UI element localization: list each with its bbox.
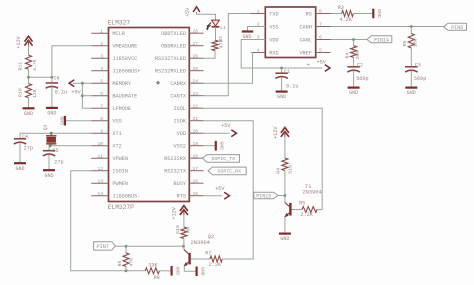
svg-text:5: 5 (319, 48, 322, 54)
ground (VSS, sideways) (64, 116, 66, 126)
svg-text:DSPIC_TX: DSPIC_TX (212, 156, 236, 162)
svg-text:PIN6: PIN6 (451, 25, 463, 31)
op-amp U2 : CAN transceiver body (265, 7, 315, 58)
power +5V (RTS pin15) (204, 195, 223, 197)
wire to BAUDRATE pin6 (82, 95, 91, 97)
node pin5 branch (81, 82, 84, 85)
svg-text:XT2: XT2 (112, 144, 121, 150)
svg-text:2.2K: 2.2K (300, 212, 313, 218)
wire VSS pin8 to ground (66, 120, 92, 122)
svg-text:VSS: VSS (112, 119, 121, 125)
pin 11 VPWEN (91, 157, 108, 159)
svg-text:+5V: +5V (221, 123, 231, 129)
resistor R11 4.7K (26, 55, 32, 69)
svg-text:R7: R7 (205, 251, 211, 257)
resistor R10 12K (26, 84, 32, 98)
pin 18 RS232RX (189, 157, 203, 159)
svg-text:4: 4 (257, 48, 260, 54)
svg-text:ISOK: ISOK (174, 119, 187, 125)
node R4can junction (352, 38, 355, 41)
ground (C6) (46, 107, 58, 109)
svg-text:RXD: RXD (269, 50, 278, 56)
svg-text:R9: R9 (154, 275, 160, 281)
capacitor C5 27p (48, 146, 50, 151)
svg-text:+5V: +5V (215, 186, 225, 192)
svg-text:Q1: Q1 (42, 124, 48, 130)
svg-text:CANH: CANH (299, 24, 311, 30)
svg-text:ISOL: ISOL (174, 106, 186, 112)
svg-text:GND: GND (376, 9, 382, 18)
svg-text:+5V: +5V (185, 8, 191, 17)
pin 1 MCLR (91, 32, 108, 34)
svg-text:19: 19 (193, 141, 199, 147)
svg-text:GND: GND (277, 94, 286, 100)
node PIN6 tag (444, 23, 467, 30)
svg-text:33K: 33K (148, 263, 158, 269)
resistor R9 33K (145, 268, 159, 274)
node pin6 branch (81, 94, 84, 97)
resistor R5can 100 (CANH) (410, 27, 412, 34)
power +5V (left arrow, pins 5-7) (69, 80, 74, 87)
wire VDD pin3 to +5V rail (241, 40, 322, 69)
capacitor C4 27p (19, 133, 21, 139)
pin 20 VDD (189, 132, 203, 134)
wire ISOL pin22 to R5 (204, 108, 323, 209)
svg-text:C6: C6 (54, 76, 60, 82)
ground (C3) (405, 86, 417, 88)
svg-text:GND: GND (15, 166, 24, 172)
resistor R4can 100 (CANL) (353, 40, 355, 46)
wire R7 to ISOK pin21 (204, 121, 254, 259)
ground (C1) (276, 90, 288, 92)
LED L1 (212, 20, 220, 26)
svg-text:16: 16 (193, 178, 199, 184)
wire T1 emitter to ground (284, 217, 286, 233)
wire CANTX pin23 to TXD (204, 14, 251, 96)
node PIN15 junction (284, 194, 287, 197)
ground (C2) (348, 86, 360, 88)
svg-text:28: 28 (193, 28, 199, 34)
svg-text:26: 26 (193, 53, 199, 59)
svg-text:7: 7 (100, 103, 103, 109)
node PIN7 tag (94, 242, 116, 250)
svg-text:+12V: +12V (273, 126, 279, 139)
pin 27 OBDRXLED (189, 45, 203, 47)
svg-text:R5: R5 (402, 40, 408, 46)
pin 8 VSS (91, 120, 108, 122)
node DSPIC_RX tag (208, 167, 246, 175)
svg-text:510: 510 (287, 165, 293, 174)
svg-text:22: 22 (193, 103, 199, 109)
pin 8 RS (316, 13, 331, 15)
svg-text:+12V: +12V (16, 35, 22, 48)
ground (R3, sideways) (372, 9, 374, 19)
svg-text:RS: RS (306, 11, 312, 17)
svg-text:LFMODE: LFMODE (112, 106, 131, 112)
wire VMEASURE pin2 (52, 46, 91, 83)
node PIN15 tag (254, 192, 278, 199)
svg-text:DSPIC_RX: DSPIC_RX (218, 169, 242, 175)
pin 4 RXD (251, 52, 266, 54)
svg-text:OBDTXLED: OBDTXLED (161, 31, 186, 37)
svg-text:R8: R8 (117, 261, 123, 267)
svg-text:6: 6 (319, 35, 322, 41)
pin 13 PWMEN (91, 182, 108, 184)
resistor R6 510 (181, 227, 187, 239)
wire XT1 pin9 (20, 132, 91, 134)
svg-text:VSS2: VSS2 (174, 144, 186, 150)
wire R6 to collector (183, 239, 185, 250)
wire VSS pin2 to ground (248, 27, 266, 31)
ground (T1 emitter) (279, 233, 291, 235)
svg-text:20: 20 (193, 128, 199, 134)
wire +12V to R4 (284, 137, 286, 158)
wire R5can to C3 (410, 48, 412, 67)
svg-text:+12V: +12V (171, 206, 177, 219)
svg-text:R3: R3 (338, 5, 344, 11)
svg-text:0.1u: 0.1u (55, 90, 67, 96)
svg-text:GND: GND (44, 173, 53, 179)
pin 7 LFMODE (91, 107, 108, 109)
wire Q2 base to R7 (191, 258, 210, 260)
svg-text:GND: GND (59, 116, 65, 125)
svg-text:RTS: RTS (177, 194, 186, 200)
svg-text:GND: GND (349, 90, 358, 96)
svg-text:CANL: CANL (299, 37, 311, 43)
wire R11 to R10 (28, 69, 30, 83)
wire CANL pin6 to PIN14 (331, 39, 367, 41)
pin 7 CANH (316, 26, 331, 28)
svg-text:+5V: +5V (71, 90, 81, 96)
wire RS pin8 to R3 (331, 13, 342, 15)
wire CANH pin7 to PIN6 (331, 26, 444, 28)
svg-text:PWMEN: PWMEN (112, 181, 128, 187)
svg-text:2N3904: 2N3904 (302, 190, 321, 196)
svg-text:1: 1 (257, 9, 260, 15)
power +12V (K-line) (180, 206, 188, 211)
pin 3 J1850VCC (91, 57, 108, 59)
svg-text:CANRX: CANRX (170, 81, 186, 87)
svg-text:GND: GND (219, 141, 225, 150)
wire to LFMODE pin7 (82, 107, 91, 109)
svg-text:6: 6 (100, 91, 103, 97)
svg-text:560p: 560p (356, 76, 368, 82)
svg-text:CANTX: CANTX (170, 94, 186, 100)
svg-text:TXD: TXD (269, 11, 278, 17)
capacitor C6 0.1u (46, 82, 59, 84)
svg-text:13: 13 (97, 178, 103, 184)
wire +12V to R6 (183, 215, 185, 227)
pin 4 J1850BUS+ (91, 70, 108, 72)
resistor R7 2.2K (210, 256, 222, 262)
pin 15 RTS (189, 195, 203, 197)
svg-text:ISOIN: ISOIN (112, 169, 128, 175)
pin 22 ISOL (189, 107, 203, 109)
wire R4can to C2 (353, 58, 355, 67)
svg-text:MEMORY: MEMORY (112, 81, 132, 87)
node crystal bottom / C5 (49, 144, 52, 147)
svg-text:Q2: Q2 (208, 234, 214, 240)
node DSPIC_TX tag (203, 155, 240, 163)
svg-text:21: 21 (193, 116, 199, 122)
svg-text:PIN14: PIN14 (374, 38, 389, 44)
resistor R2 470 (212, 40, 218, 51)
svg-text:4.2K: 4.2K (339, 17, 352, 23)
svg-text:VMEASURE: VMEASURE (112, 44, 137, 50)
svg-text:18: 18 (193, 153, 199, 159)
wire LED to R2 (215, 27, 217, 40)
svg-text:5: 5 (100, 78, 103, 84)
svg-text:25: 25 (193, 66, 199, 72)
pin 5 VREF (316, 52, 331, 54)
svg-text:24: 24 (193, 78, 199, 84)
svg-text:10: 10 (97, 141, 103, 147)
power +12V (divider) (25, 36, 33, 41)
op-amp U1 : ELM327P main IC body (109, 28, 190, 202)
pin 19 VSS2 (189, 145, 203, 147)
svg-text:VPWEN: VPWEN (112, 156, 128, 162)
svg-text:14: 14 (97, 191, 103, 197)
pin 26 RS232TXLED (189, 57, 203, 59)
ground (C5) (43, 169, 55, 171)
svg-text:470: 470 (218, 40, 224, 49)
pin 2 VMEASURE (91, 45, 108, 47)
pin 3 VDD (251, 39, 266, 41)
pin 21 ISOK (189, 120, 203, 122)
svg-text:GND: GND (199, 267, 205, 276)
power +12V (L-line) (281, 128, 289, 133)
svg-text:OBDRXLED: OBDRXLED (161, 44, 186, 50)
svg-text:23: 23 (193, 91, 199, 97)
pin 25 RS232RXLED (189, 70, 203, 72)
capacitor C3 560p (405, 66, 418, 68)
pin 6 BAUDRATE (91, 95, 108, 97)
wire R3 to ground (353, 13, 373, 15)
svg-text:VDD: VDD (269, 37, 278, 43)
node C6 top junction (51, 76, 54, 79)
svg-text:PIN7: PIN7 (96, 244, 108, 250)
resistor R8 47K (125, 246, 127, 253)
wire emitter to ground (184, 266, 196, 271)
svg-text:VSS: VSS (269, 24, 278, 30)
pin 24 CANRX (189, 82, 203, 84)
node R5can junction (410, 25, 413, 28)
pin 6 CANL (316, 39, 331, 41)
svg-text:4.7K: 4.7K (32, 59, 38, 71)
svg-text:RS232RXLED: RS232RXLED (155, 69, 186, 75)
svg-text:J1850BUS-: J1850BUS- (112, 194, 140, 200)
node R8 bottom (125, 269, 128, 272)
svg-text:2.2K: 2.2K (209, 262, 222, 268)
ground (Q2 emitter, sideways) (196, 267, 198, 277)
svg-text:VREF: VREF (299, 50, 311, 56)
svg-text:27: 27 (193, 41, 199, 47)
pin 12 ISOIN (91, 170, 108, 172)
svg-text:GND: GND (407, 90, 416, 96)
svg-text:RS232TX: RS232TX (164, 169, 187, 175)
node crystal top (50, 132, 53, 135)
resistor R4 510 (282, 158, 288, 171)
wire branch down to pins 6,7 (81, 83, 83, 108)
power +5V (LED) (193, 7, 200, 12)
svg-text:27p: 27p (54, 160, 63, 166)
svg-text:3: 3 (100, 53, 103, 59)
node R8 top (125, 245, 128, 248)
wire R2 to pin26 (204, 51, 216, 59)
capacitor C2 560p (347, 66, 360, 68)
svg-text:0.1u: 0.1u (286, 84, 298, 90)
wire PIN7 to Q2 collector (115, 245, 183, 247)
svg-text:47K: 47K (129, 258, 135, 267)
resistor R3 4.2K (342, 11, 354, 17)
svg-text:1: 1 (100, 28, 103, 34)
svg-text:8: 8 (319, 9, 322, 15)
svg-text:J1850VCC: J1850VCC (112, 56, 137, 62)
pin 14 J1850BUS- (91, 195, 108, 197)
svg-text:27p: 27p (24, 146, 33, 152)
svg-text:9: 9 (100, 128, 103, 134)
svg-text:VDD: VDD (177, 131, 186, 137)
svg-text:ELM327P: ELM327P (108, 204, 134, 211)
wire +12V to R11 (28, 46, 30, 55)
wire R5 to T1 base (292, 209, 303, 211)
node C1 junction (280, 67, 283, 70)
ground (C4) (14, 162, 26, 164)
svg-text:4: 4 (100, 66, 103, 72)
ground (VSS2 pin19, sideways) (204, 145, 216, 147)
svg-text:15: 15 (193, 191, 199, 197)
svg-text:17: 17 (193, 166, 199, 172)
wire CANRX pin24 to RXD (204, 53, 253, 84)
power +5V (VDD pin20) (204, 132, 230, 134)
wire R4 to T1 collector (284, 171, 286, 203)
svg-text:560p: 560p (414, 76, 426, 82)
svg-text:R11: R11 (18, 62, 24, 71)
svg-text:510: 510 (175, 225, 181, 234)
svg-text:MCLR: MCLR (112, 31, 124, 37)
power +5V (MCP rail) (325, 65, 330, 72)
node collector junction (182, 245, 185, 248)
wire +5V to MEMORY pin5 (73, 82, 91, 84)
wire +5V to LED (197, 12, 216, 20)
svg-text:C1: C1 (284, 69, 290, 75)
svg-text:8: 8 (100, 116, 103, 122)
resistor R5 2.2K (302, 207, 317, 213)
svg-text:R10: R10 (18, 88, 24, 97)
svg-text:L1: L1 (220, 25, 226, 31)
pin 10 XT2 (91, 145, 108, 147)
pin 2 VSS (251, 26, 266, 28)
svg-text:GND: GND (280, 236, 289, 242)
svg-text:XT1: XT1 (112, 131, 121, 137)
wire divider to C6 column (29, 76, 52, 78)
svg-text:PIN15: PIN15 (256, 194, 271, 200)
pin 5 MEMORY (91, 82, 108, 84)
svg-text:12: 12 (97, 166, 103, 172)
wire PIN15 tag (278, 195, 285, 197)
capacitor C1 0.1u (281, 68, 283, 73)
wire XT2 pin10 (49, 145, 91, 147)
ground (rail, sideways) (171, 266, 173, 276)
svg-text:RS232TXLED: RS232TXLED (155, 56, 186, 62)
ground (MCP VSS) (242, 30, 253, 32)
svg-text:C3: C3 (415, 63, 421, 69)
ground (divider) (23, 107, 35, 109)
svg-text:C4: C4 (22, 134, 28, 140)
pin 23 CANTX (189, 95, 203, 97)
pin 9 XT1 (91, 132, 108, 134)
svg-text:GND: GND (174, 266, 180, 275)
svg-text:C5: C5 (53, 148, 59, 154)
svg-text:100: 100 (413, 38, 419, 47)
svg-text:R4: R4 (275, 168, 281, 174)
svg-text:RS232RX: RS232RX (164, 156, 187, 162)
node divider junction (27, 76, 30, 79)
svg-text:GND: GND (24, 111, 33, 117)
svg-text:GND: GND (47, 111, 56, 117)
svg-text:7: 7 (319, 22, 322, 28)
pin 17 RS232TX (189, 170, 203, 172)
pin 28 OBDTXLED (189, 32, 203, 34)
svg-text:BUSY: BUSY (174, 181, 187, 187)
svg-text:J1850BUS+: J1850BUS+ (112, 69, 140, 75)
svg-text:ELM327: ELM327 (108, 19, 131, 26)
svg-text:R6: R6 (186, 227, 192, 233)
svg-text:R4: R4 (344, 53, 350, 59)
svg-text:C2: C2 (357, 63, 363, 69)
pin 1 TXD (251, 13, 266, 15)
svg-text:2: 2 (100, 41, 103, 47)
node PIN14 tag (367, 36, 392, 43)
wire C6 to ground (51, 87, 53, 108)
svg-text:11: 11 (97, 153, 103, 159)
svg-text:BAUDRATE: BAUDRATE (112, 94, 137, 100)
diamond marker next to CANRX (156, 81, 159, 84)
svg-text:2N3904: 2N3904 (191, 240, 210, 246)
wire R9 to ground (159, 270, 171, 272)
svg-text:R5: R5 (299, 201, 305, 207)
pin 16 BUSY (189, 182, 203, 184)
svg-text:100: 100 (355, 51, 361, 60)
wire ISOIN pin12 down and across bottom (71, 171, 146, 271)
svg-text:12K: 12K (32, 89, 38, 98)
wire R10 to ground (28, 98, 30, 108)
svg-text:+5V: +5V (317, 60, 327, 66)
